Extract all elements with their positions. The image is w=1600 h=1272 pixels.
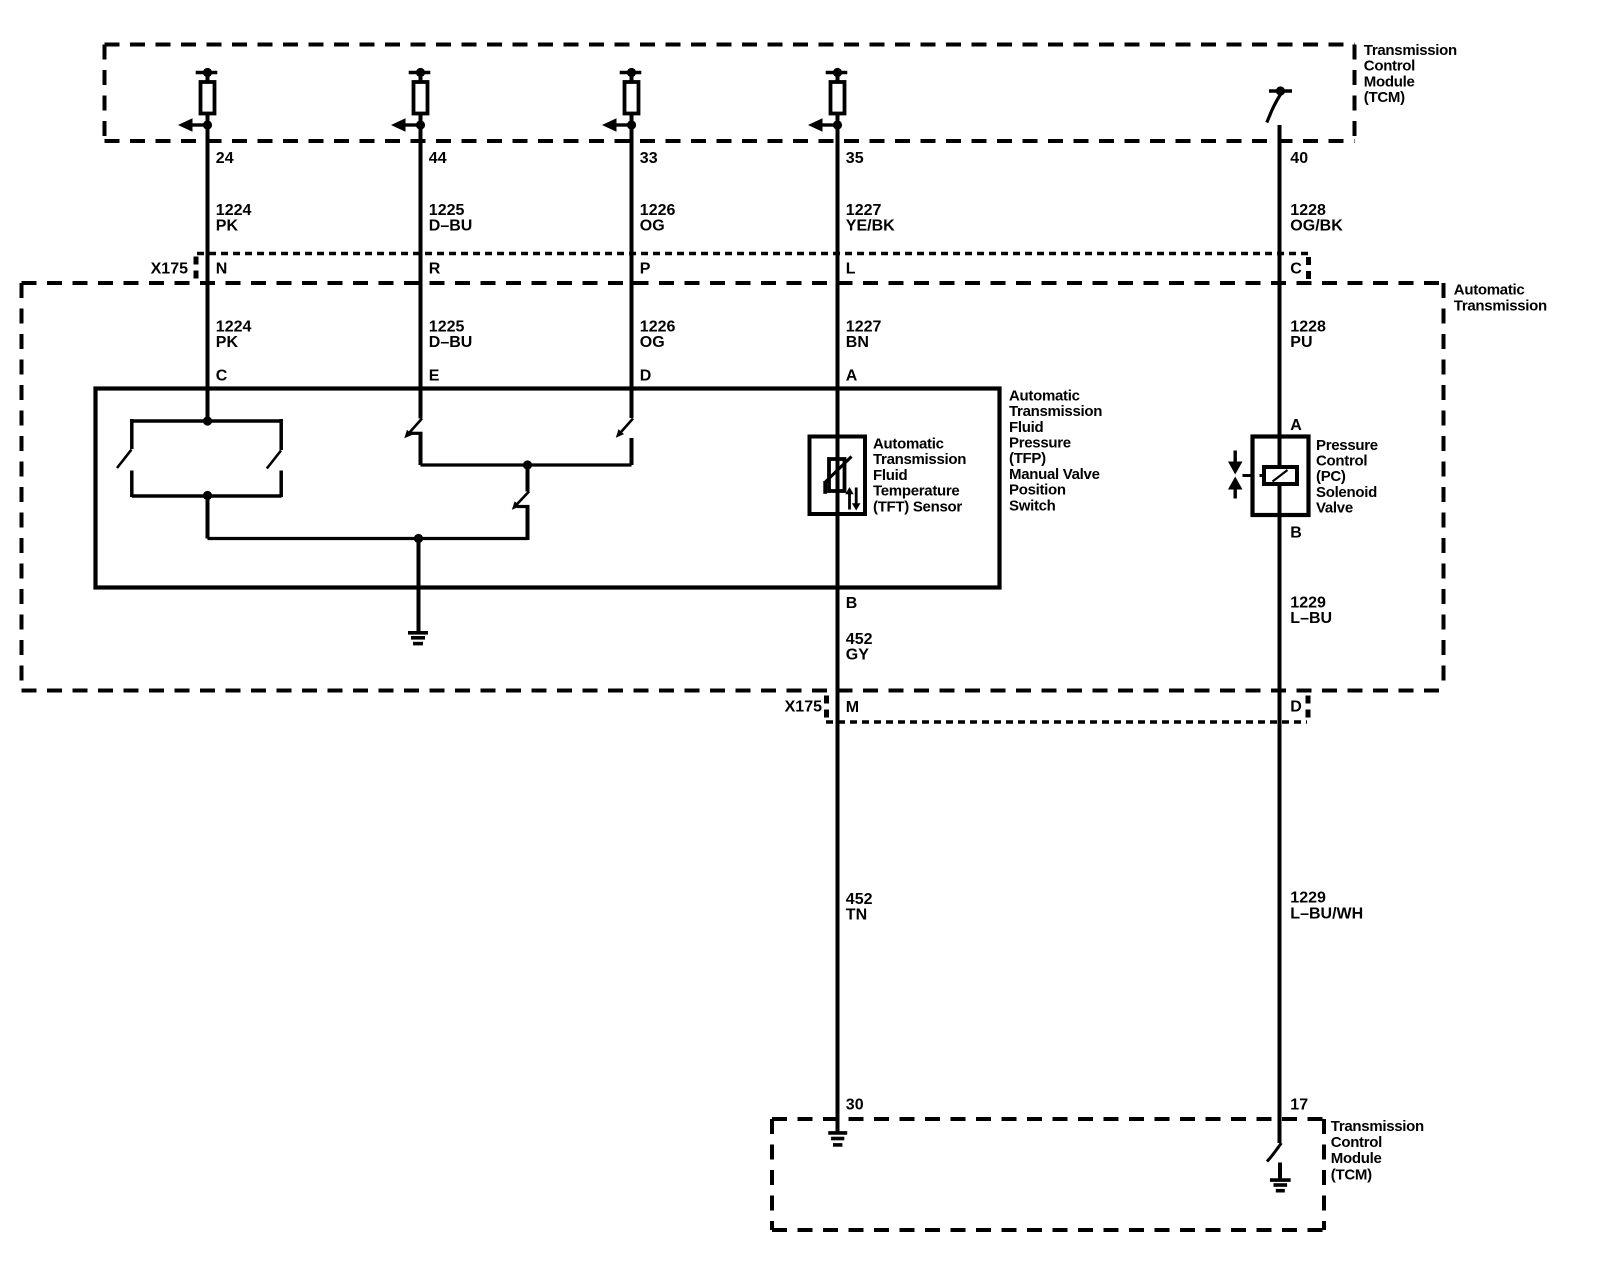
TFT up arrow bbox=[848, 492, 851, 510]
svg-text:452: 452 bbox=[846, 631, 873, 648]
PC solenoid valve outer box bbox=[1253, 437, 1309, 516]
svg-text:Control: Control bbox=[1331, 1134, 1382, 1151]
svg-text:B: B bbox=[846, 595, 858, 612]
svg-text:X175: X175 bbox=[151, 260, 188, 277]
node dot at resistor top (pin 24) bbox=[203, 68, 212, 77]
node: C junction top bbox=[203, 416, 212, 425]
svg-text:BN: BN bbox=[846, 334, 869, 351]
svg-text:1225: 1225 bbox=[429, 202, 465, 219]
svg-text:C: C bbox=[216, 367, 228, 384]
svg-text:A: A bbox=[1290, 417, 1302, 434]
svg-text:(TCM): (TCM) bbox=[1364, 89, 1405, 106]
svg-text:YE/BK: YE/BK bbox=[846, 217, 895, 234]
wire 1227 / 452: TCM pin 35 through TFT sensor to TCM pin 30 bbox=[836, 114, 840, 1132]
svg-text:D–BU: D–BU bbox=[429, 334, 473, 351]
valve symbol (two triangles) bbox=[1233, 451, 1236, 464]
svg-text:PK: PK bbox=[216, 334, 239, 351]
svg-text:1227: 1227 bbox=[846, 318, 882, 335]
svg-text:M: M bbox=[846, 699, 859, 716]
svg-text:OG: OG bbox=[640, 334, 665, 351]
svg-text:Automatic: Automatic bbox=[873, 436, 944, 453]
svg-text:Automatic: Automatic bbox=[1009, 387, 1080, 404]
node dot at arrow junction (pin 35) bbox=[833, 120, 842, 129]
svg-text:1225: 1225 bbox=[429, 318, 465, 335]
svg-text:17: 17 bbox=[1290, 1097, 1308, 1114]
node dot at arrow junction (pin 24) bbox=[203, 120, 212, 129]
svg-text:OG: OG bbox=[640, 217, 665, 234]
ground at TCM pin 17 bbox=[1270, 1178, 1291, 1182]
Transmission Control Module (TCM) top dashed box bbox=[105, 43, 1355, 47]
signal sense arrow at TCM pin 35 bbox=[822, 123, 838, 126]
svg-text:Solenoid: Solenoid bbox=[1316, 484, 1377, 501]
svg-text:TN: TN bbox=[846, 907, 867, 924]
svg-text:P: P bbox=[640, 260, 651, 277]
svg-text:PK: PK bbox=[216, 217, 239, 234]
node: E-D link junction bbox=[523, 460, 532, 469]
svg-text:1228: 1228 bbox=[1290, 318, 1326, 335]
svg-text:Switch: Switch bbox=[1009, 497, 1056, 514]
svg-text:D–BU: D–BU bbox=[429, 217, 473, 234]
svg-text:(TCM): (TCM) bbox=[1331, 1166, 1372, 1183]
TFT down arrow bbox=[855, 488, 858, 505]
svg-text:Module: Module bbox=[1331, 1150, 1382, 1167]
svg-text:Module: Module bbox=[1364, 73, 1415, 90]
TFP Manual Valve Position Switch solid box bbox=[96, 389, 1000, 588]
signal sense arrow at TCM pin 44 bbox=[405, 123, 421, 126]
svg-text:Transmission: Transmission bbox=[873, 451, 966, 468]
svg-text:1226: 1226 bbox=[640, 202, 676, 219]
svg-text:N: N bbox=[216, 260, 228, 277]
switch D fixed contact bbox=[630, 438, 634, 465]
TCM pin 17 driver switch blade bbox=[1267, 1143, 1281, 1162]
svg-text:30: 30 bbox=[846, 1097, 864, 1114]
svg-text:Transmission: Transmission bbox=[1454, 297, 1547, 314]
svg-text:Manual Valve: Manual Valve bbox=[1009, 466, 1100, 483]
middle switch fixed contact bbox=[517, 505, 530, 508]
svg-text:Pressure: Pressure bbox=[1316, 437, 1378, 454]
wire 1224 PK: TCM pin 24 to TFP switch pin C bbox=[206, 114, 210, 422]
svg-text:Control: Control bbox=[1316, 453, 1367, 470]
svg-text:C: C bbox=[1290, 260, 1302, 277]
svg-text:L–BU: L–BU bbox=[1290, 610, 1332, 627]
svg-text:Transmission: Transmission bbox=[1364, 42, 1457, 59]
svg-text:(PC): (PC) bbox=[1316, 468, 1346, 485]
svg-text:Valve: Valve bbox=[1316, 500, 1353, 517]
svg-text:Position: Position bbox=[1009, 482, 1066, 499]
node: parallel bottom junction bbox=[203, 491, 212, 500]
pull-up resistor at TCM pin 44 bbox=[409, 71, 431, 75]
right switch blade bbox=[267, 451, 281, 469]
ground at TCM pin 30 bbox=[828, 1131, 847, 1135]
pull-up resistor at TCM pin 33 bbox=[620, 71, 642, 75]
svg-text:1224: 1224 bbox=[216, 202, 252, 219]
svg-text:A: A bbox=[846, 367, 858, 384]
ground (TFP switch) bbox=[408, 631, 428, 635]
node dot at arrow junction (pin 33) bbox=[627, 120, 636, 129]
signal sense arrow at TCM pin 33 bbox=[616, 123, 632, 126]
Automatic Transmission dashed box bbox=[22, 281, 1444, 285]
common rail wire bbox=[208, 537, 528, 540]
svg-text:Fluid: Fluid bbox=[1009, 419, 1043, 436]
svg-text:Transmission: Transmission bbox=[1331, 1118, 1424, 1135]
switch E blade bbox=[408, 419, 423, 435]
svg-text:Pressure: Pressure bbox=[1009, 435, 1071, 452]
svg-text:D: D bbox=[640, 367, 652, 384]
node dot at arrow junction (pin 44) bbox=[416, 120, 425, 129]
middle switch blade bbox=[515, 492, 529, 507]
wire 1228 / 1229: TCM pin 40 through PC solenoid to TCM pin 17 bbox=[1278, 125, 1282, 1143]
svg-text:Automatic: Automatic bbox=[1454, 282, 1525, 299]
svg-text:(TFT) Sensor: (TFT) Sensor bbox=[873, 498, 962, 515]
node dot at resistor top (pin 44) bbox=[416, 68, 425, 77]
left switch blade bbox=[117, 450, 132, 469]
svg-text:452: 452 bbox=[846, 891, 873, 908]
TFT thermistor diagonal arrow bbox=[826, 457, 852, 482]
wire 1225 D-BU: TCM pin 44 to TFP switch pin E bbox=[419, 114, 423, 419]
parallel switch left leg bbox=[130, 419, 134, 449]
svg-text:(TFP): (TFP) bbox=[1009, 450, 1046, 467]
node: ground junction bbox=[414, 534, 423, 543]
connector X175 lower band (pins M D) bbox=[826, 720, 1307, 723]
node dot at resistor top (pin 33) bbox=[627, 68, 636, 77]
node dot at resistor top (pin 35) bbox=[833, 68, 842, 77]
middle switch stem bbox=[526, 465, 530, 492]
svg-text:44: 44 bbox=[429, 150, 447, 167]
svg-text:1227: 1227 bbox=[846, 202, 882, 219]
ground stem from common rail bbox=[417, 539, 421, 632]
svg-text:R: R bbox=[429, 260, 441, 277]
Transmission Control Module (TCM) bottom dashed box bbox=[772, 1117, 1324, 1121]
thermistor rectangle (TFT element) bbox=[829, 459, 845, 491]
svg-text:D: D bbox=[1290, 699, 1302, 716]
signal sense arrow at TCM pin 24 bbox=[192, 123, 208, 126]
switch D blade bbox=[619, 419, 633, 435]
parallel switch right leg bbox=[279, 419, 283, 450]
node: pin C junction bbox=[132, 419, 282, 423]
wire 1226 OG: TCM pin 33 to TFP switch pin D bbox=[630, 114, 634, 419]
svg-text:1228: 1228 bbox=[1290, 202, 1326, 219]
switch E fixed contact bbox=[411, 432, 423, 435]
svg-text:GY: GY bbox=[846, 647, 869, 664]
TCM pin 40 driver switch symbol bbox=[1269, 89, 1292, 93]
svg-text:Transmission: Transmission bbox=[1009, 403, 1102, 420]
link E-D contacts bbox=[421, 463, 632, 466]
svg-text:Temperature: Temperature bbox=[873, 483, 959, 500]
svg-text:L: L bbox=[846, 260, 856, 277]
bottom rail of parallel switches bbox=[132, 494, 282, 498]
svg-text:PU: PU bbox=[1290, 334, 1312, 351]
stem from parallel switches to common rail bbox=[206, 496, 210, 539]
svg-text:OG/BK: OG/BK bbox=[1290, 217, 1343, 234]
svg-text:E: E bbox=[429, 367, 440, 384]
svg-text:Fluid: Fluid bbox=[873, 467, 907, 484]
svg-text:1229: 1229 bbox=[1290, 594, 1326, 611]
svg-text:24: 24 bbox=[216, 150, 234, 167]
pull-up resistor at TCM pin 24 bbox=[196, 71, 218, 75]
svg-text:33: 33 bbox=[640, 150, 658, 167]
TFT sensor outer box bbox=[810, 437, 866, 515]
svg-text:L–BU/WH: L–BU/WH bbox=[1290, 906, 1363, 923]
svg-text:35: 35 bbox=[846, 150, 864, 167]
connector X175 upper band (pins N R P L C) bbox=[197, 252, 1309, 255]
svg-text:40: 40 bbox=[1290, 150, 1308, 167]
pull-up resistor at TCM pin 35 bbox=[826, 71, 848, 75]
solenoid coil rectangle bbox=[1264, 467, 1297, 484]
svg-text:Control: Control bbox=[1364, 58, 1415, 75]
svg-text:B: B bbox=[1290, 525, 1302, 542]
svg-text:1224: 1224 bbox=[216, 318, 252, 335]
svg-text:1226: 1226 bbox=[640, 318, 676, 335]
svg-text:X175: X175 bbox=[785, 699, 822, 716]
svg-text:1229: 1229 bbox=[1290, 890, 1326, 907]
